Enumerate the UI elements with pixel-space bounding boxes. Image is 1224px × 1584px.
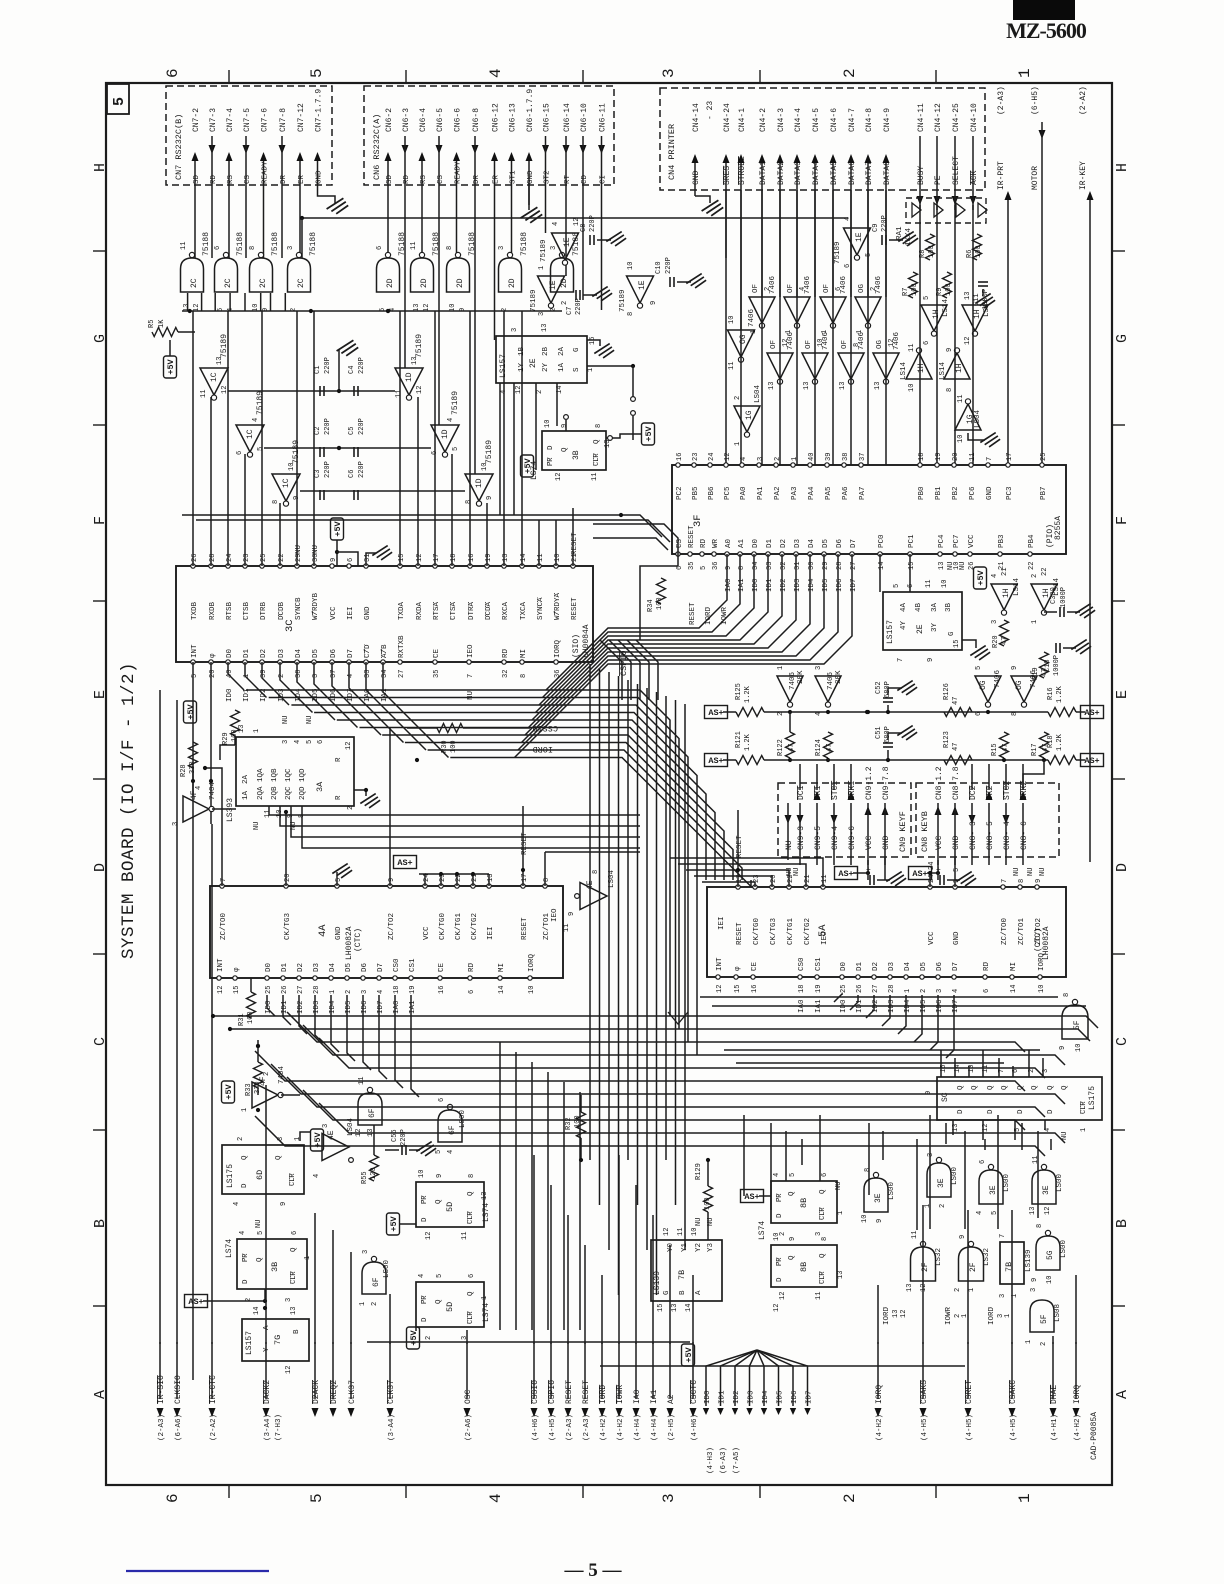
svg-text:D6: D6 [330, 648, 338, 658]
svg-text:Q: Q [275, 1155, 283, 1160]
capacitor C4 220P [353, 386, 355, 396]
resistor R55 120 [370, 1155, 379, 1181]
svg-text:5: 5 [111, 97, 128, 106]
svg-text:15: 15 [908, 562, 916, 570]
power +5V rail2 right [1081, 754, 1104, 767]
svg-text:OF: OF [752, 284, 760, 293]
inverter 4F 7404 [183, 796, 209, 822]
svg-text:24: 24 [928, 875, 936, 883]
wire bus A line 9 [450, 758, 751, 887]
wire SRK2 drop [1023, 760, 1044, 788]
svg-text:1KX4: 1KX4 [905, 227, 913, 246]
svg-text:9: 9 [388, 878, 396, 882]
wire bundle C h2 [287, 1012, 1025, 1052]
inverter OG 7406 #6 [1011, 676, 1037, 702]
connector CN8 KEYB dashed box [916, 783, 1059, 857]
resistor R8 100 [926, 234, 935, 260]
capacitor C1 220P [319, 386, 321, 396]
svg-text:5: 5 [893, 584, 901, 588]
svg-text:CN9-7.8: CN9-7.8 [882, 766, 891, 800]
svg-text:12: 12 [1044, 1207, 1052, 1215]
svg-text:1: 1 [1004, 1314, 1012, 1318]
svg-text:CN8 KEYB: CN8 KEYB [920, 811, 930, 852]
svg-text:RXDB: RXDB [209, 601, 217, 620]
svg-text:220P: 220P [665, 257, 673, 274]
svg-text:CN8- 6: CN8- 6 [1020, 821, 1029, 850]
svg-text:PA6: PA6 [842, 486, 850, 500]
grid tick left [93, 778, 107, 780]
wire to SIO pin x418 [417, 397, 419, 566]
svg-text:D3: D3 [313, 962, 321, 972]
svg-text:RD: RD [700, 538, 708, 548]
svg-text:3: 3 [815, 666, 823, 670]
wire bottom rail 1 [367, 1341, 690, 1343]
svg-text:LS393: LS393 [226, 798, 235, 822]
wire printer data x762 [761, 190, 763, 465]
svg-text:7: 7 [1001, 879, 1009, 883]
svg-text:IA1: IA1 [409, 1000, 417, 1014]
svg-text:4: 4 [740, 457, 748, 461]
svg-text:D1: D1 [243, 648, 251, 658]
svg-text:1QA: 1QA [257, 768, 265, 782]
junction dot [579, 1158, 583, 1162]
svg-text:15: 15 [589, 337, 597, 345]
svg-text:10: 10 [908, 384, 916, 392]
svg-text:CN9 KEYF: CN9 KEYF [898, 811, 908, 852]
svg-text:IORQ: IORQ [528, 953, 536, 972]
junction dot [706, 1158, 710, 1162]
svg-text:22: 22 [1028, 562, 1036, 570]
svg-text:NU: NU [793, 868, 801, 876]
svg-text:GND: GND [882, 835, 891, 850]
inverter 4E LS04 #2 [322, 1134, 349, 1161]
svg-text:C4: C4 [348, 366, 356, 374]
svg-text:CN6-4: CN6-4 [419, 108, 428, 132]
svg-text:1: 1 [924, 1204, 932, 1208]
svg-text:VCC: VCC [935, 835, 944, 850]
svg-text:9: 9 [1031, 1278, 1039, 1282]
svg-text:33: 33 [766, 562, 774, 570]
svg-text:CK/TG3: CK/TG3 [284, 912, 292, 940]
svg-text:AS+: AS+ [838, 869, 853, 879]
svg-text:8: 8 [543, 878, 551, 882]
svg-text:RTSB: RTSB [226, 601, 234, 620]
svg-text:NU: NU [695, 1218, 703, 1226]
grid tick right [1111, 1129, 1125, 1131]
svg-text:100: 100 [975, 245, 983, 258]
wire bus A line 3 [314, 713, 697, 1056]
svg-text:CN4-8: CN4-8 [865, 108, 874, 132]
svg-text:A2: A2 [667, 1394, 676, 1404]
wire CTC4A fan 3 [315, 995, 323, 1043]
grid tick right [1111, 424, 1125, 426]
wire LS175 top feed 5 [1012, 1066, 1014, 1077]
svg-text:CSCTC: CSCTC [690, 1380, 699, 1404]
power +5V rail1 left [705, 706, 728, 719]
svg-text:Y0: Y0 [667, 1242, 675, 1252]
capacitor C3 220P [319, 490, 321, 500]
svg-text:4: 4 [347, 674, 355, 678]
wire IR-SIO feed [159, 690, 161, 1344]
svg-text:SYNCB: SYNCB [295, 597, 303, 620]
svg-text:19: 19 [815, 985, 823, 993]
svg-text:R16: R16 [1047, 687, 1055, 700]
svg-text:220P: 220P [575, 298, 583, 315]
svg-text:1: 1 [837, 1211, 845, 1215]
svg-text:1: 1 [294, 1137, 302, 1141]
svg-text:NU: NU [1039, 868, 1047, 876]
svg-text:1: 1 [961, 1314, 969, 1318]
buffer 1E 75189 #4 [844, 228, 871, 255]
grid tick top [228, 70, 230, 84]
inverter OF 7406 row1 #1 [784, 297, 810, 323]
svg-text:Q: Q [1047, 1085, 1055, 1090]
junction dot [415, 758, 419, 762]
svg-text:15: 15 [734, 985, 742, 993]
svg-text:3: 3 [660, 1493, 678, 1503]
svg-text:RESET: RESET [571, 597, 579, 620]
svg-text:CK/TG1: CK/TG1 [787, 917, 795, 945]
svg-text:17: 17 [521, 874, 529, 882]
capacitor C9 220P [881, 235, 883, 245]
svg-text:47: 47 [1001, 637, 1009, 645]
wire 8255 fan 6 [525, 554, 810, 735]
svg-text:C51: C51 [875, 726, 883, 739]
wire gate feed v11 [984, 1139, 986, 1150]
wire 75188 input drop 5 [260, 293, 262, 311]
wire to SIO pin x487 [486, 503, 488, 566]
svg-text:15: 15 [233, 986, 241, 994]
wire CTC5A fan 0 [834, 994, 842, 1002]
buffer 1H LS14 #3 [906, 353, 932, 379]
svg-text:3: 3 [511, 328, 519, 332]
svg-text:PR: PR [547, 457, 555, 466]
svg-text:6: 6 [317, 740, 325, 744]
svg-text:6: 6 [236, 451, 244, 455]
power +5V 4F [222, 1081, 235, 1103]
svg-text:INT: INT [217, 958, 225, 972]
svg-text:CN8- 3: CN8- 3 [969, 821, 978, 850]
svg-text:4: 4 [447, 418, 455, 422]
svg-text:21: 21 [1001, 568, 1009, 576]
svg-text:(4-H5): (4-H5) [966, 1414, 974, 1441]
svg-text:9: 9 [650, 301, 658, 305]
svg-text:NU: NU [1061, 1132, 1069, 1140]
wire SIO bus ID5 [314, 662, 358, 728]
wire exit feed IORQb [1075, 1275, 1077, 1344]
wire exit feed IOWR [618, 1155, 620, 1344]
svg-text:36: 36 [554, 670, 562, 678]
gate 5F NOR top [1062, 1005, 1088, 1039]
power +5V 5D1 [387, 1213, 400, 1235]
wire bundle B v6 [646, 688, 648, 1250]
zone 5 box top-left [107, 84, 129, 114]
IC 3C LH0084A SIO [176, 566, 593, 662]
svg-text:(SIO): (SIO) [572, 634, 581, 658]
svg-text:R: R [335, 795, 343, 800]
capacitor C56 220P [401, 1145, 403, 1155]
svg-text:G: G [1114, 334, 1131, 343]
svg-text:(3-A4): (3-A4) [388, 1414, 396, 1441]
buffer 1D 75189 at 445,425 [431, 425, 459, 452]
svg-text:CS0: CS0 [393, 958, 401, 972]
svg-text:47: 47 [826, 744, 834, 752]
wire 4F out to LS393 [212, 808, 236, 810]
svg-text:RESET: RESET [521, 832, 529, 855]
power +5V rail1 right [1081, 706, 1104, 719]
svg-text:A: A [92, 1390, 109, 1399]
svg-text:9: 9 [959, 1235, 967, 1239]
svg-text:C5: C5 [348, 427, 356, 435]
svg-text:100: 100 [928, 245, 936, 258]
svg-text:CLR: CLR [819, 1207, 827, 1220]
svg-text:47: 47 [952, 743, 960, 751]
wire gate feed v1 [770, 1123, 772, 1210]
wire CTC5A fan 6 [930, 995, 938, 1050]
svg-text:100: 100 [656, 597, 664, 610]
wire printer data x797 [796, 190, 798, 465]
wire bundle B v8 [665, 696, 667, 1160]
svg-text:15: 15 [657, 1304, 665, 1312]
svg-text:10: 10 [544, 420, 552, 428]
svg-text:5D: 5D [445, 1202, 455, 1212]
svg-text:D: D [421, 1217, 429, 1222]
svg-text:ID7: ID7 [850, 578, 858, 592]
svg-text:IOWR: IOWR [945, 1306, 953, 1325]
svg-text:CN4-12: CN4-12 [934, 103, 943, 132]
IC SC LS175 [937, 1077, 1102, 1120]
svg-text:NU: NU [467, 691, 475, 700]
wire CN9 riser x834 [833, 764, 835, 790]
power +5V CTC VCC [394, 856, 417, 869]
svg-text:PB7: PB7 [1040, 486, 1048, 500]
svg-text:10: 10 [1038, 985, 1046, 993]
svg-text:2D: 2D [508, 278, 517, 288]
gate 6F LS00 #3 [438, 1110, 462, 1142]
svg-text:CLR: CLR [467, 1311, 475, 1324]
resistor R122 47 [786, 732, 795, 758]
svg-text:OG: OG [1015, 680, 1024, 690]
svg-text:RS: RS [227, 174, 235, 184]
svg-text:IEI: IEI [718, 916, 726, 930]
svg-text:16: 16 [751, 985, 759, 993]
resistor R6 100 [973, 234, 982, 260]
IC 3B LS74 #2 [237, 1239, 307, 1289]
svg-text:37: 37 [859, 453, 867, 461]
buffer 1C 75189 at 250,425 [236, 425, 264, 452]
svg-text:39: 39 [260, 670, 268, 678]
wire bundle B v7 [656, 692, 658, 1295]
inverter OG 7406 #5 [975, 676, 1001, 702]
svg-text:E: E [1114, 690, 1131, 699]
svg-text:13: 13 [768, 382, 776, 390]
svg-text:IR-SIO: IR-SIO [157, 1375, 166, 1404]
grid tick top [935, 70, 937, 84]
svg-text:R122: R122 [777, 739, 785, 756]
svg-text:4: 4 [239, 1231, 247, 1235]
svg-text:14: 14 [498, 986, 506, 994]
svg-text:3: 3 [322, 1124, 330, 1128]
svg-text:16: 16 [676, 453, 684, 461]
svg-text:12: 12 [773, 1304, 781, 1312]
connector CN6 RS232C(A) dashed box [364, 86, 614, 185]
svg-text:C8: C8 [580, 224, 588, 232]
svg-text:D5: D5 [345, 962, 353, 972]
svg-text:8: 8 [864, 1168, 872, 1172]
svg-text:D0: D0 [840, 961, 848, 971]
wire SIO bus ID4 [297, 662, 335, 720]
svg-text:2D: 2D [386, 278, 395, 288]
svg-text:AS+: AS+ [708, 708, 723, 718]
svg-text:CSPIO: CSPIO [548, 1380, 557, 1404]
svg-text:E: E [92, 690, 109, 699]
svg-text:75189: 75189 [485, 440, 494, 464]
svg-text:IEI: IEI [487, 926, 495, 940]
svg-text:10: 10 [554, 554, 562, 562]
wire CN8 riser x1023 [1022, 764, 1024, 790]
svg-text:29: 29 [822, 562, 830, 570]
svg-text:6: 6 [983, 989, 991, 993]
svg-text:11: 11 [591, 473, 599, 481]
svg-text:D7: D7 [347, 649, 355, 658]
wire mesh exit v0 [499, 1042, 501, 1330]
IC 3F 8255A PIO [672, 465, 1066, 554]
svg-text:CN8- 4: CN8- 4 [1003, 821, 1012, 850]
svg-text:CS1: CS1 [409, 958, 417, 972]
svg-text:12: 12 [900, 1310, 908, 1318]
svg-text:12: 12 [724, 453, 732, 461]
svg-text:B: B [1114, 1219, 1131, 1228]
svg-text:8255A: 8255A [1054, 516, 1063, 540]
svg-text:75189: 75189 [540, 239, 548, 262]
svg-text:10: 10 [627, 262, 635, 270]
gate 2D 75188 #3 [447, 258, 470, 292]
svg-text:ID2: ID2 [733, 1390, 741, 1404]
svg-text:20: 20 [284, 874, 292, 882]
svg-text:R129: R129 [695, 1163, 703, 1180]
svg-text:PC0: PC0 [878, 534, 886, 548]
svg-text:10: 10 [1075, 1044, 1083, 1052]
junction dot [256, 1044, 260, 1048]
svg-text:18: 18 [918, 453, 926, 461]
svg-text:D5: D5 [920, 961, 928, 971]
svg-text:12: 12 [716, 985, 724, 993]
svg-text:28: 28 [209, 554, 217, 562]
svg-text:22: 22 [278, 554, 286, 562]
svg-text:Q: Q [788, 1255, 796, 1260]
svg-text:2E: 2E [529, 358, 538, 368]
svg-text:2B: 2B [542, 346, 550, 356]
svg-text:36: 36 [712, 562, 720, 570]
svg-text:8: 8 [446, 246, 454, 250]
wire printer status x920 [919, 205, 921, 465]
svg-text:9: 9 [1059, 1046, 1067, 1050]
svg-text:7404: 7404 [209, 781, 217, 800]
IC 7B LS139 #2 [1000, 1242, 1024, 1284]
svg-text:R55: R55 [361, 1171, 369, 1184]
grid tick bottom [935, 1484, 937, 1498]
svg-text:5: 5 [953, 868, 961, 872]
svg-text:LS74: LS74 [758, 1221, 767, 1240]
svg-text:14: 14 [685, 1304, 693, 1312]
svg-text:AS+: AS+ [744, 1192, 759, 1202]
resistor R28 330 [189, 742, 198, 768]
junction dot [928, 871, 932, 875]
svg-text:3Y: 3Y [931, 622, 939, 632]
svg-text:(4-H5): (4-H5) [1010, 1414, 1018, 1441]
wire rail2 [790, 759, 1048, 761]
wire to SIO pin x452 [451, 454, 453, 566]
svg-text:VCC: VCC [423, 926, 431, 940]
svg-text:(4-H2): (4-H2) [600, 1414, 608, 1441]
svg-text:1.2K: 1.2K [744, 685, 752, 703]
svg-text:38: 38 [842, 453, 850, 461]
svg-text:5: 5 [257, 447, 265, 451]
svg-text:IORQ: IORQ [554, 639, 562, 658]
svg-text:CN9-1.2: CN9-1.2 [865, 766, 874, 800]
svg-text:CN4-14: CN4-14 [692, 103, 701, 132]
svg-text:1C: 1C [210, 372, 219, 382]
wire SIO bus ID0 [228, 662, 244, 690]
svg-text:LS14: LS14 [942, 298, 950, 317]
resistor R15 47 [1000, 732, 1009, 758]
wire CTC4A fan 2 [299, 995, 307, 1034]
grid tick bottom [759, 1484, 761, 1498]
svg-text:1H: 1H [955, 363, 964, 373]
junction dot [386, 309, 390, 313]
svg-text:PC4: PC4 [938, 534, 946, 548]
svg-text:D: D [987, 1109, 995, 1114]
svg-text:1QD: 1QD [299, 768, 307, 782]
svg-text:(4-H3): (4-H3) [707, 1447, 715, 1474]
wire CN9 riser x851 [850, 764, 852, 790]
svg-text:PR: PR [421, 1195, 429, 1204]
svg-text:C6: C6 [348, 470, 356, 478]
resistor R17 47 [1040, 732, 1049, 758]
wire SIO bus ID7 [349, 662, 404, 743]
wire exit feed IA1 [652, 1215, 654, 1344]
svg-text:PC7: PC7 [953, 534, 961, 548]
svg-text:1: 1 [750, 330, 758, 334]
svg-text:ID3: ID3 [794, 578, 802, 592]
svg-text:3: 3 [285, 1298, 293, 1302]
svg-text:DR: DR [473, 174, 481, 184]
svg-text:φ: φ [734, 966, 742, 971]
wire gate feed v8 [929, 1115, 931, 1229]
svg-text:120: 120 [370, 1167, 378, 1180]
wire exit feed CSCTC [692, 1275, 694, 1344]
svg-text:DATA6: DATA6 [848, 161, 857, 185]
wire printer data x868 [867, 190, 869, 465]
svg-text:19: 19 [409, 986, 417, 994]
svg-text:+5V: +5V [333, 520, 343, 536]
IC 7B LS139 [651, 1240, 722, 1301]
svg-text:13: 13 [803, 382, 811, 390]
svg-text:7406: 7406 [769, 275, 777, 294]
svg-text:R: R [335, 757, 343, 762]
svg-text:CN9-6: CN9-6 [848, 826, 857, 850]
svg-text:12: 12 [345, 742, 353, 750]
IC 5A LH0082A CTC2 [707, 887, 1066, 977]
svg-text:Q: Q [435, 1299, 443, 1304]
label CSPIO wire [677, 554, 679, 566]
wire mesh exit v3 [547, 1072, 549, 1330]
wire 75188 input drop 1 [201, 293, 203, 311]
blue underline mark [126, 1570, 269, 1572]
svg-text:6F: 6F [372, 1277, 381, 1287]
svg-text:OG: OG [979, 680, 988, 690]
svg-text:MI: MI [498, 963, 506, 972]
